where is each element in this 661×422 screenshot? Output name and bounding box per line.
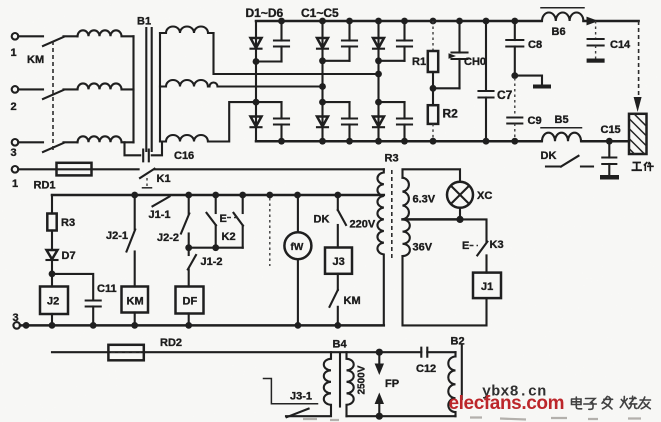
contact J2-2 xyxy=(157,214,189,245)
wire phase C to rectifier xyxy=(208,102,256,141)
wire KM to rail xyxy=(134,313,136,326)
diode D5 xyxy=(317,117,328,128)
contactor KM pole 1 xyxy=(43,37,64,46)
HF bottom wire xyxy=(347,415,456,417)
wire phase A to rectifier xyxy=(214,33,379,74)
wire to node row xyxy=(188,234,190,256)
wire J3 to KM contact xyxy=(337,274,339,290)
wire phase1 to KM xyxy=(18,35,43,37)
transformer B3 secondary xyxy=(403,178,410,256)
node C xyxy=(212,244,219,251)
contact J3-1 branch xyxy=(264,379,318,418)
B3 core dashed xyxy=(391,170,393,260)
B1 secondary winding 1 xyxy=(160,27,214,33)
fuse RD1 xyxy=(34,163,92,192)
terminal 3 (control) xyxy=(13,312,21,329)
capacitor C15 xyxy=(601,124,621,175)
secondary top wire to lamp xyxy=(403,169,461,182)
capacitor C1 top xyxy=(274,21,289,62)
diode D1 xyxy=(251,38,262,49)
top DC bus xyxy=(256,20,542,23)
diode D2 xyxy=(317,38,328,49)
column D wire xyxy=(242,195,244,213)
capacitor C7 xyxy=(479,21,513,141)
arrow node on bus xyxy=(587,17,599,26)
column A wire xyxy=(134,195,136,229)
column F wire xyxy=(297,195,299,232)
bottom control rail xyxy=(20,324,384,327)
wire K3 to J1 xyxy=(485,255,487,272)
B1 secondary winding 2 xyxy=(160,80,208,87)
wire node D1 to C1 xyxy=(256,60,282,62)
ground under C14 xyxy=(587,59,605,63)
node dots FP xyxy=(376,349,383,420)
wire FW to rail xyxy=(297,259,299,325)
workpiece 工件 box xyxy=(629,114,647,154)
node row C-D xyxy=(189,247,243,249)
bottom DC bus xyxy=(256,140,542,143)
electrode arrow xyxy=(634,97,642,112)
switch DK (top) xyxy=(546,156,593,167)
dashed drop to electrode xyxy=(638,21,640,95)
contactor KM pole 3 xyxy=(43,143,64,152)
contactor KM pole 2 xyxy=(43,90,64,99)
capacitor C12 xyxy=(416,348,456,375)
contact K3 xyxy=(462,239,504,255)
junction dots top bus xyxy=(278,18,518,25)
transformer B1 primary winding 3 xyxy=(78,136,134,142)
B1 primary common bus xyxy=(132,36,134,142)
terminal 2 xyxy=(11,86,19,113)
wire R1 node to CH0 xyxy=(433,87,460,89)
wire to ground xyxy=(515,76,542,85)
fuse RD2 xyxy=(108,337,182,360)
wire to J3 xyxy=(337,225,339,248)
spark gap FP top arrow xyxy=(375,352,384,375)
node B xyxy=(185,244,192,251)
switch DK (control) xyxy=(314,210,347,226)
node above J2 xyxy=(49,271,56,278)
label 工件 xyxy=(632,162,654,171)
wire node D5 to C5 xyxy=(323,101,350,103)
wire to node xyxy=(51,260,53,287)
resistor R1 xyxy=(412,21,438,88)
contact J1-1 xyxy=(149,197,171,222)
wire xyxy=(64,35,78,37)
capacitor C11 xyxy=(86,283,117,325)
B2 core xyxy=(461,345,463,400)
wire J2 to rail xyxy=(51,314,53,325)
contact K2 pole 2 xyxy=(234,213,244,226)
diode D3 xyxy=(373,38,384,49)
transformer B3 primary 220V xyxy=(377,169,383,325)
transformer B4 secondary 2500V xyxy=(347,352,354,416)
rectifier leg 1 xyxy=(255,21,257,141)
meter FW xyxy=(284,232,311,259)
wire node D4 to C4 xyxy=(256,101,282,103)
wire xyxy=(64,88,78,90)
wire J1 to 36V return xyxy=(403,256,487,325)
scanner smudges bottom edge xyxy=(303,418,641,421)
top DC bus right part xyxy=(584,20,639,23)
diode D6 xyxy=(373,117,384,128)
watermark 电子发烧友 glyphs xyxy=(572,396,651,409)
capacitor C6 bottom xyxy=(397,102,412,141)
capacitor C14 xyxy=(588,21,631,59)
terminal 1 (control) xyxy=(12,166,19,190)
rectifier leg 2 xyxy=(321,21,323,141)
inductor B6 xyxy=(541,8,584,38)
relay coil J3 xyxy=(325,248,352,274)
capacitor C5 bottom xyxy=(342,102,357,141)
contact J2-1 xyxy=(106,230,135,252)
control rail xyxy=(52,194,384,197)
spark gap FP bottom arrow xyxy=(375,393,384,417)
inductor B2 xyxy=(448,336,464,417)
diode D4 xyxy=(251,117,262,128)
dashed stub column E xyxy=(269,198,271,266)
bottom rail junction dots xyxy=(23,322,341,329)
wire to KM coil xyxy=(134,252,136,287)
wire xyxy=(242,226,244,248)
terminal 3 xyxy=(11,139,19,159)
B1 core xyxy=(145,28,147,151)
capacitor C16 wire from primary xyxy=(125,142,141,155)
rectifier leg 3 xyxy=(377,21,379,141)
capacitor C2 top xyxy=(342,21,357,61)
lamp XC xyxy=(447,182,492,208)
wire to bottom rail xyxy=(337,307,339,326)
junction dots bottom bus xyxy=(278,138,613,145)
contact J1-2 xyxy=(188,255,223,270)
KM linkage dashed xyxy=(52,41,54,150)
node under lamp xyxy=(456,216,463,223)
inductor B5 xyxy=(541,114,582,141)
junction dots rectifier midpoints xyxy=(253,57,382,105)
column G wire xyxy=(337,195,339,210)
wire node D3 to C3 xyxy=(379,60,405,62)
wire phase B with crossover hop xyxy=(208,83,323,87)
node below R1 xyxy=(430,85,437,92)
node below C8 xyxy=(511,72,518,79)
6.3V tap wire xyxy=(403,218,461,221)
ground under C15 xyxy=(600,175,619,180)
wire phase2 to KM xyxy=(18,88,43,90)
label E- linkage xyxy=(220,213,240,225)
contactor coil KM xyxy=(122,287,149,313)
wire xyxy=(64,141,78,143)
wire DF to rail xyxy=(188,314,190,326)
transformer B1 primary winding 2 xyxy=(78,83,134,89)
transformer B1 primary winding 1 xyxy=(78,30,134,36)
wire to DF coil xyxy=(188,270,190,287)
relay coil J2 xyxy=(40,287,68,315)
capacitor C4 bottom xyxy=(274,102,289,141)
capacitor C8 xyxy=(506,21,542,76)
HF top wire xyxy=(52,351,421,353)
wire xyxy=(51,231,53,251)
column B wire xyxy=(188,195,190,214)
contact K2 pole 1 xyxy=(207,213,217,226)
wire node to C11 xyxy=(52,274,93,301)
rail junction dots xyxy=(131,192,341,199)
B1 secondary common bus xyxy=(159,33,161,142)
wire phase3 to KM xyxy=(18,141,43,143)
wire node D2 to C2 xyxy=(323,60,350,62)
capacitor C16 xyxy=(143,150,149,162)
bottom DC bus right part xyxy=(582,140,630,143)
lamp bottom stem xyxy=(459,208,461,220)
wire fuse to K1 xyxy=(92,168,139,170)
transformer B4 primary xyxy=(286,352,331,416)
wire node to K3 xyxy=(460,219,487,241)
wire xyxy=(215,225,217,247)
pushbutton K1 xyxy=(140,169,171,188)
wire to fuse xyxy=(18,168,56,170)
ground xyxy=(533,85,551,89)
capacitor C9 xyxy=(507,78,541,139)
contact KM (aux) xyxy=(330,290,361,307)
column C wire xyxy=(215,195,217,213)
relay coil DF xyxy=(176,287,204,314)
B4 core xyxy=(339,353,341,407)
resistor R3 xyxy=(47,214,75,231)
relay coil J1 xyxy=(473,273,501,299)
resistor R2 xyxy=(428,88,458,139)
electrolytic capacitor CH0 xyxy=(449,21,487,88)
B1 secondary winding 3 xyxy=(160,135,208,142)
wire node D6 to C6 xyxy=(379,101,405,103)
wire K1 to B3 primary top xyxy=(155,168,384,170)
C16 wire to secondary xyxy=(152,142,162,156)
capacitor C3 top xyxy=(397,21,412,61)
terminal 1 xyxy=(11,33,19,59)
left branch wire xyxy=(51,195,53,214)
diode D7 xyxy=(47,250,76,262)
